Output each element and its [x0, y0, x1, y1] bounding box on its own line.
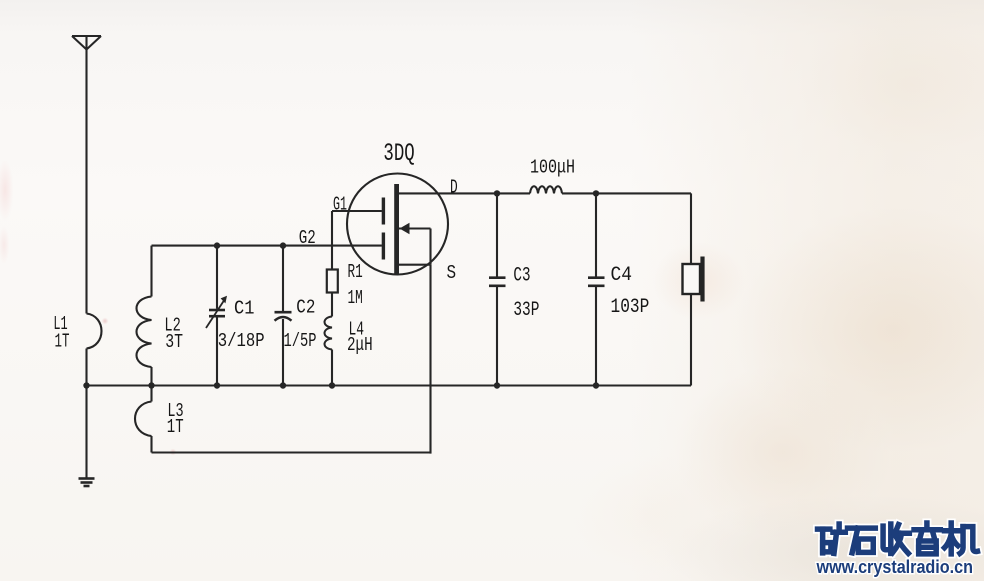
svg-text:3DQ: 3DQ — [383, 140, 414, 168]
svg-text:G1: G1 — [333, 193, 347, 215]
svg-text:100μH: 100μH — [530, 157, 575, 179]
svg-text:1T: 1T — [55, 330, 70, 352]
svg-text:33P: 33P — [513, 299, 539, 322]
svg-text:C1: C1 — [234, 297, 254, 319]
svg-text:D: D — [450, 177, 458, 199]
svg-text:C3: C3 — [513, 264, 530, 287]
svg-text:C2: C2 — [296, 296, 315, 318]
svg-text:1M: 1M — [348, 287, 363, 309]
svg-text:C4: C4 — [611, 264, 633, 287]
svg-text:1T: 1T — [167, 416, 184, 438]
svg-text:G2: G2 — [299, 227, 316, 249]
svg-text:103P: 103P — [611, 296, 650, 319]
svg-text:3/18P: 3/18P — [218, 330, 265, 352]
svg-text:2μH: 2μH — [347, 334, 373, 356]
svg-text:1/5P: 1/5P — [284, 330, 317, 352]
svg-text:3T: 3T — [165, 331, 183, 353]
svg-text:R1: R1 — [348, 261, 363, 283]
svg-text:www.crystalradio.cn: www.crystalradio.cn — [816, 557, 973, 577]
svg-text:S: S — [447, 262, 457, 284]
